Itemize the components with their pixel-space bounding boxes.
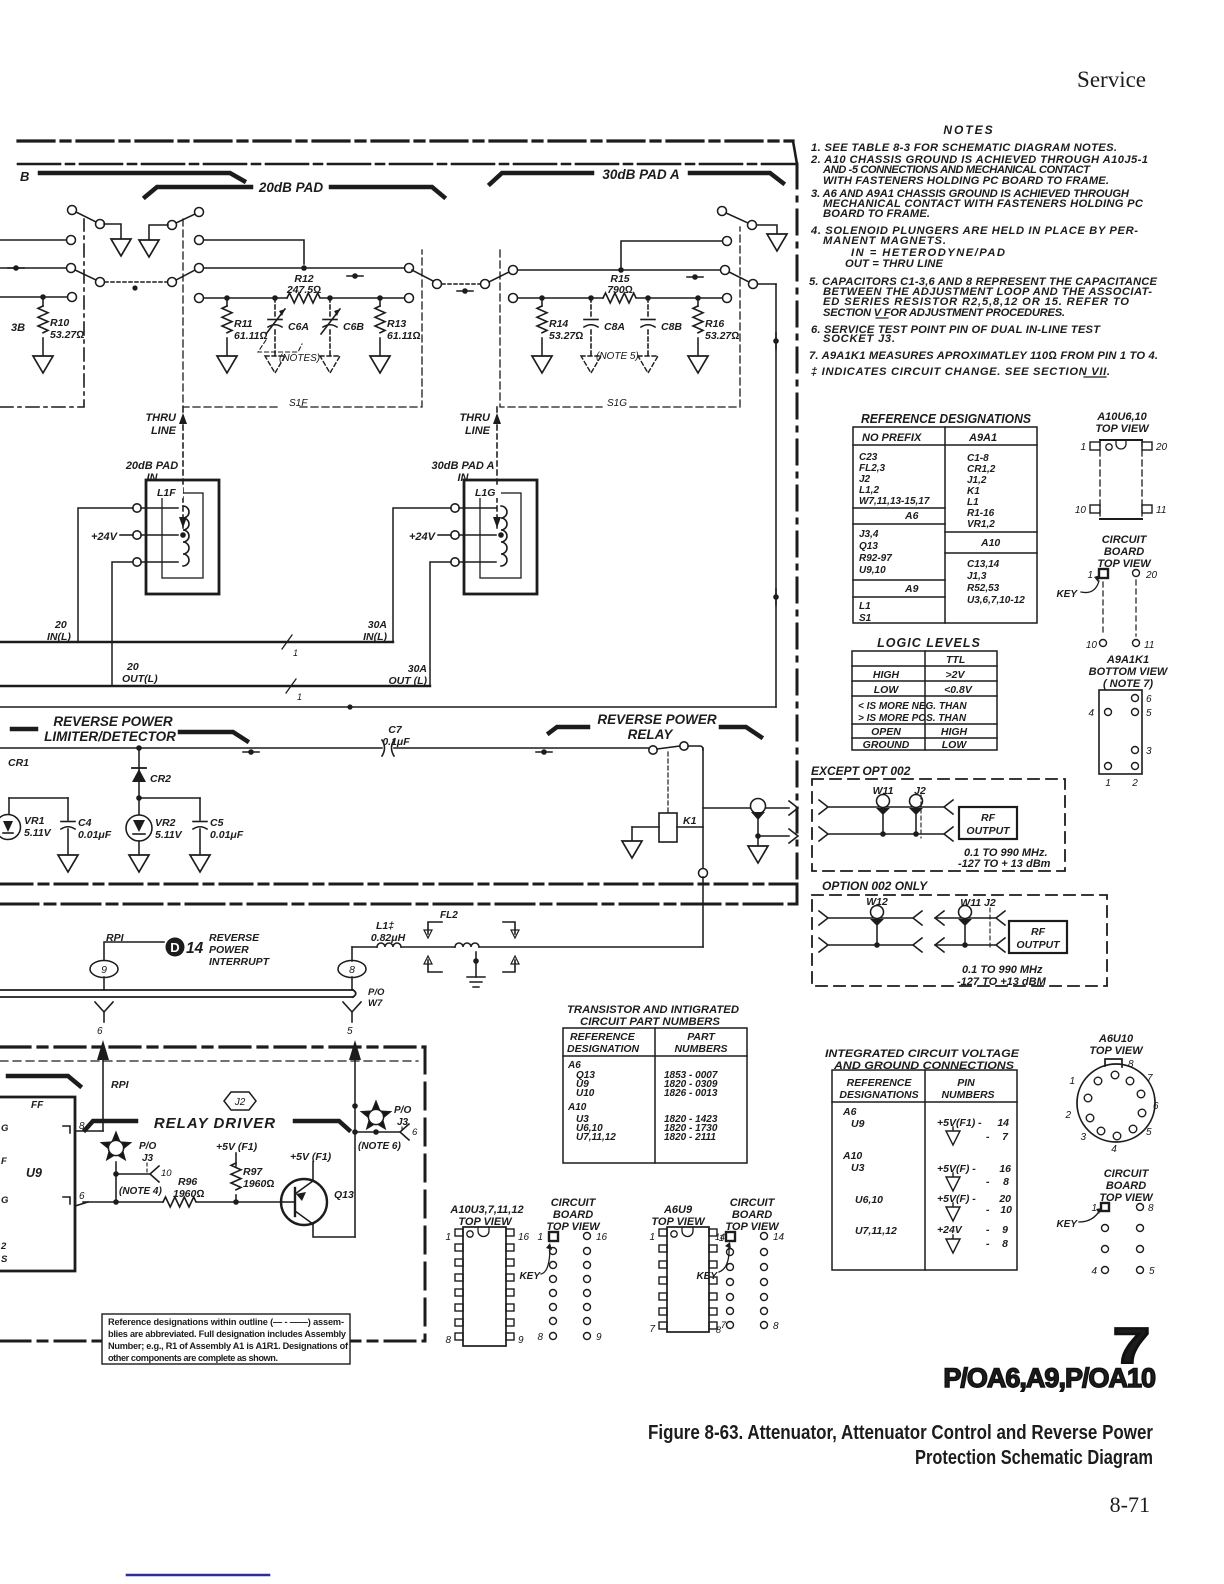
svg-text:8: 8 [349,964,355,976]
svg-text:2: 2 [1131,778,1138,789]
option wire 1 left [819,911,828,925]
svg-text:+24V: +24V [91,531,119,543]
main line IN y=642 [0,641,393,643]
svg-text:NO PREFIX: NO PREFIX [862,432,922,444]
bracket left limiter [12,727,36,732]
bracket 30dB PAD A left [490,173,592,184]
capacitor C7 [382,740,394,756]
ground top right [767,234,787,251]
pads 8 view [1101,1203,1109,1211]
svg-text:8: 8 [445,1335,451,1346]
svg-text:-: - [986,1204,990,1216]
30dB output switch arm [729,272,749,282]
ground under left switch [111,239,131,256]
30dB solenoid switch top right [718,207,727,216]
A10U6,10 package body [1100,439,1142,441]
svg-text:1: 1 [297,692,302,702]
svg-text:KEY: KEY [519,1271,541,1282]
svg-text:R97: R97 [243,1166,263,1178]
svg-text:-: - [986,1238,990,1250]
wire left row1 [0,239,66,241]
small ground symbols in pin column [946,1127,960,1253]
label L1F [155,486,183,498]
resistor R10 lead [40,294,46,300]
resistor R97 [231,1163,241,1190]
svg-text:C8B: C8B [661,321,682,333]
bracket 30dB PAD A right [690,173,783,183]
assembly border top dash-dot line 1 [18,139,793,142]
svg-text:VR1: VR1 [24,815,45,827]
resistor R14 [541,298,543,306]
svg-text:P/OA6,A9,P/OA10: P/OA6,A9,P/OA10 [943,1363,1155,1393]
svg-text:2: 2 [1064,1110,1071,1121]
DIP16 pins left [455,1229,514,1340]
svg-text:1: 1 [719,1233,724,1244]
30dB cell mid wire [509,266,518,275]
svg-text:A6: A6 [904,510,919,522]
svg-text:-: - [986,1176,990,1188]
svg-text:NOTES: NOTES [943,123,994,137]
S1F dashed switch outline [183,219,422,407]
connector circle 9 [90,961,118,978]
svg-text:PART: PART [687,1031,716,1043]
pads 14 view [726,1232,735,1241]
svg-text:+5V(F) -: +5V(F) - [937,1193,976,1205]
svg-text:REVERSE POWER: REVERSE POWER [53,714,173,729]
bracket 20dB PAD right [331,187,444,197]
option wire 1 right [935,911,944,925]
svg-text:(NOTE 5): (NOTE 5) [596,351,639,362]
resistor R11 [226,298,228,306]
svg-text:30A: 30A [368,619,387,631]
svg-text:EXCEPT OPT 002: EXCEPT OPT 002 [811,764,911,778]
svg-text:3B: 3B [11,322,25,334]
svg-text:LINE: LINE [465,425,491,437]
svg-text:(NOTE 4): (NOTE 4) [119,1186,162,1197]
svg-text:10: 10 [1075,505,1087,516]
svg-text:9: 9 [1002,1224,1008,1236]
svg-text:11: 11 [1156,505,1166,516]
wire left row3 [0,296,67,298]
svg-text:53.27Ω: 53.27Ω [705,330,739,342]
bracket right relay [721,727,761,737]
svg-text:INTEGRATED CIRCUIT VOLTAGE: INTEGRATED CIRCUIT VOLTAGE [825,1048,1020,1060]
svg-text:POWER: POWER [209,944,249,956]
relay driver top border dash-dot y=1047 [0,1045,425,1048]
dashed box EXCEPT OPT 002 [812,779,1065,871]
svg-text:1960Ω: 1960Ω [173,1188,204,1200]
svg-text:REFERENCE DESIGNATIONS: REFERENCE DESIGNATIONS [861,412,1032,426]
svg-text:KEY: KEY [1056,589,1078,600]
svg-text:5: 5 [347,1026,353,1037]
transistor table frame [563,1028,747,1163]
svg-text:-: - [986,1224,990,1236]
capacitor C8B [647,298,649,316]
marker dots on wire [248,749,254,755]
svg-text:J3: J3 [142,1153,154,1164]
svg-text:CR1: CR1 [8,757,29,769]
svg-text:4: 4 [1111,1144,1117,1155]
svg-text:1: 1 [537,1232,543,1243]
solenoid L1F outer box [146,480,219,594]
wire left row2 [0,267,66,269]
svg-text:TRANSISTOR AND INTIGRATED: TRANSISTOR AND INTIGRATED [567,1004,739,1016]
svg-text:6: 6 [97,1026,103,1037]
svg-text:U9: U9 [851,1118,865,1130]
svg-text:F: F [1,1156,7,1167]
svg-text:R11: R11 [234,318,253,330]
svg-text:KEY: KEY [696,1271,718,1282]
cable W11 loop option [959,906,972,919]
FL2 ground tap [473,958,479,964]
relay driver bottom border dash-dot y=1341 [0,1340,425,1343]
right assembly border vertical x=797 [796,164,799,884]
svg-text:0.1μF: 0.1μF [382,736,410,748]
svg-text:W7: W7 [368,998,383,1009]
relay driver right border vertical x=425 [424,1047,427,1341]
svg-text:A9A1: A9A1 [968,432,997,444]
svg-text:20: 20 [126,661,139,673]
svg-text:6: 6 [1146,694,1152,705]
svg-text:G: G [1,1123,9,1134]
svg-text:other components are complete: other components are complete as shown. [108,1353,278,1363]
svg-text:4: 4 [1088,708,1094,719]
svg-text:1: 1 [1087,570,1093,581]
svg-text:DESIGNATION: DESIGNATION [567,1043,640,1055]
svg-text:L1: L1 [967,497,979,508]
svg-text:8: 8 [1003,1176,1009,1188]
switch arm upper right pair [195,208,204,217]
svg-text:3: 3 [1080,1132,1086,1143]
svg-text:1: 1 [649,1232,655,1243]
fork 5 under bus [343,1002,361,1012]
svg-text:CIRCUIT PART NUMBERS: CIRCUIT PART NUMBERS [580,1016,721,1028]
svg-text:5: 5 [1146,1127,1152,1138]
zener VR2 [138,798,140,814]
contact circle on border [699,869,708,878]
svg-text:247.5Ω: 247.5Ω [286,284,321,296]
stub to ground right [149,225,168,239]
20dB cell mid wire [195,264,204,273]
svg-text:8: 8 [1128,1059,1134,1070]
svg-text:HIGH: HIGH [941,726,968,738]
ground under output [748,846,768,863]
svg-text:8: 8 [1002,1238,1008,1250]
svg-text:J2: J2 [234,1097,246,1108]
reference designation note box [102,1314,350,1364]
svg-text:16: 16 [999,1163,1011,1175]
svg-text:-: - [986,1131,990,1143]
bracket relay driver left [85,1121,136,1130]
svg-text:+5V(F) -: +5V(F) - [937,1163,976,1175]
L1G contacts [451,504,459,512]
20dB resistor row wire [195,294,204,303]
svg-text:Q13: Q13 [859,541,878,552]
svg-text:NUMBERS: NUMBERS [941,1089,994,1101]
svg-text:REFERENCE: REFERENCE [847,1077,913,1089]
svg-text:THRU: THRU [145,412,177,424]
svg-text:OUTPUT: OUTPUT [966,825,1011,837]
through switch between cells [412,270,433,281]
svg-text:A6U9: A6U9 [663,1204,693,1216]
svg-text:7: 7 [1002,1131,1009,1143]
contact circle row3 left [68,293,77,302]
svg-text:U7,11,12: U7,11,12 [576,1132,616,1143]
svg-text:Reference designations within: Reference designations within outline (—… [108,1317,344,1327]
svg-text:RELAY DRIVER: RELAY DRIVER [154,1115,276,1132]
svg-text:P/O: P/O [394,1105,411,1116]
svg-text:L1,2: L1,2 [859,485,879,496]
contact circle row2 left [67,264,76,273]
svg-text:GROUND: GROUND [863,739,910,751]
limiter section top line [0,706,776,708]
J2 dashed boundary option [989,908,991,950]
svg-text:LOW: LOW [874,684,900,696]
svg-text:5.11V: 5.11V [155,829,183,841]
svg-text:53.27Ω: 53.27Ω [50,329,84,341]
relay K1 [659,813,677,842]
wire FL2 to relay line [479,946,703,948]
capacitor C6B (variable) [329,298,331,316]
connector star P/O J3 left [102,1133,131,1160]
svg-text:61.11Ω: 61.11Ω [234,330,268,342]
wire 2 except [819,827,828,841]
svg-text:D: D [170,940,179,955]
svg-text:TTL: TTL [946,654,965,666]
relay switch contacts [649,746,657,754]
IC voltage table frame [832,1070,1017,1270]
svg-text:9: 9 [518,1335,524,1346]
svg-text:BOARD: BOARD [553,1209,593,1221]
bracket relay driver right [295,1121,349,1130]
RF OUTPUT box 2 [1009,921,1067,953]
coil L1G [501,506,507,566]
svg-text:L1‡: L1‡ [376,920,394,932]
svg-text:20: 20 [54,619,67,631]
marker dot 30dB mid [692,274,698,280]
svg-text:R52,53: R52,53 [967,583,1000,594]
svg-text:OUTPUT: OUTPUT [1016,939,1061,951]
S1G dashed switch outline [500,227,740,407]
solenoid L1G outer box [464,480,537,594]
resistor R13 [379,298,381,306]
svg-text:11: 11 [1144,640,1154,651]
svg-text:THRU: THRU [459,412,491,424]
svg-text:LOW: LOW [942,739,968,751]
underline section VII [1084,376,1106,378]
svg-text:J1,3: J1,3 [967,571,987,582]
svg-text:6: 6 [412,1127,418,1138]
bracket 20dB PAD left [145,187,251,197]
L1F wiring to main lines [78,508,133,642]
svg-text:A6: A6 [842,1106,857,1118]
svg-text:CIRCUIT: CIRCUIT [1104,1168,1150,1180]
resistor R10 [38,306,48,333]
svg-text:OPEN: OPEN [871,726,901,738]
svg-text:J2: J2 [859,474,871,485]
svg-text:R14: R14 [549,318,568,330]
junction dots resistor row [224,295,230,301]
pads 16 view [549,1232,558,1241]
solenoid L1F inner box [162,493,203,578]
dashed pad columns [1102,582,1104,636]
flip flop U9 box [0,1097,75,1271]
svg-text:10: 10 [161,1168,172,1179]
svg-text:CR2: CR2 [150,773,171,785]
svg-text:VR1,2: VR1,2 [967,519,995,530]
svg-text:R96: R96 [178,1176,197,1188]
svg-text:+5V (F1): +5V (F1) [290,1151,332,1163]
20dB cell bypass wire [195,236,204,245]
svg-text:U3: U3 [851,1162,865,1174]
svg-text:W12: W12 [866,896,888,908]
svg-text:790Ω: 790Ω [607,284,633,296]
output branch lower [755,833,761,839]
svg-text:TOP VIEW: TOP VIEW [1089,1045,1144,1057]
svg-text:CIRCUIT: CIRCUIT [551,1197,597,1209]
svg-text:C1-8: C1-8 [967,453,989,464]
svg-text:-127 TO +13 dBM: -127 TO +13 dBM [957,976,1047,988]
A6U10 can body [1077,1064,1155,1142]
svg-text:R16: R16 [705,318,724,330]
svg-text:7: 7 [649,1324,655,1335]
svg-text:16: 16 [518,1232,530,1243]
svg-text:IN(L): IN(L) [47,631,71,643]
svg-text:6: 6 [1153,1101,1159,1112]
svg-text:<0.8V: <0.8V [944,684,973,696]
connector circle 8 [338,961,366,978]
junction marker left row2 [13,265,19,271]
slash marker on IN line [282,635,292,649]
svg-text:C7: C7 [388,724,403,736]
svg-text:C8A: C8A [604,321,625,333]
heavy bracket top left [8,1076,80,1086]
svg-text:U10: U10 [576,1088,595,1099]
D14 reverse power interrupt symbol [166,938,185,957]
svg-text:S1F: S1F [289,398,308,409]
svg-text:A10: A10 [842,1150,862,1162]
svg-text:REVERSE POWER: REVERSE POWER [597,712,717,727]
svg-text:‡ INDICATES CIRCUIT CHANGE. SE: ‡ INDICATES CIRCUIT CHANGE. SEE SECTION … [811,366,1110,378]
border corner joining y884 y904 [796,884,799,904]
svg-text:< IS MORE NEG. THAN: < IS MORE NEG. THAN [858,701,967,712]
no prefix list [859,452,930,507]
relay coil K1 actuation dashed [667,752,669,812]
svg-text:8: 8 [1148,1203,1154,1214]
svg-text:5.11V: 5.11V [24,827,52,839]
svg-text:FL2,3: FL2,3 [859,463,886,474]
svg-text:REFERENCE: REFERENCE [570,1031,636,1043]
capacitor C8A [590,298,592,316]
svg-text:(NOTES): (NOTES) [279,353,320,364]
svg-text:CIRCUIT: CIRCUIT [730,1197,776,1209]
switch arm row2 to pivot [75,270,96,280]
svg-text:J2: J2 [914,785,926,797]
svg-text:R92-97: R92-97 [859,553,892,564]
svg-text:W11: W11 [873,785,894,797]
svg-text:C5: C5 [210,817,224,829]
svg-text:TOP VIEW: TOP VIEW [1095,423,1150,435]
svg-text:1820 - 2111: 1820 - 2111 [664,1132,716,1143]
svg-text:10: 10 [1086,640,1098,651]
svg-text:30dB PAD A: 30dB PAD A [432,460,495,472]
svg-text:-127 TO + 13 dBm: -127 TO + 13 dBm [958,858,1051,870]
thru line dashed link L1F [182,407,184,528]
diode CR2 [136,745,142,751]
svg-text:J3: J3 [397,1117,409,1128]
ground under right switch [139,240,159,257]
wire 1 except [819,800,828,814]
svg-text:1. SEE TABLE 8-3 FOR SCHEMATIC: 1. SEE TABLE 8-3 FOR SCHEMATIC DIAGRAM N… [811,142,1117,154]
svg-text:WITH FASTENERS HOLDING PC BOAR: WITH FASTENERS HOLDING PC BOARD TO FRAME… [823,175,1109,187]
svg-text:BOARD: BOARD [732,1209,772,1221]
svg-text:14: 14 [186,940,204,957]
transistor Q13 [281,1179,327,1225]
wire down from relay switch [702,748,704,873]
J2 dashed boundary [920,795,922,838]
svg-text:20: 20 [1155,442,1168,453]
wire L1 to FL2 [401,946,455,948]
bottom blue rule [127,1574,269,1577]
left dash-dot box around input section [0,219,84,407]
svg-text:LOGIC LEVELS: LOGIC LEVELS [877,636,981,650]
svg-text:L1G: L1G [475,487,495,499]
svg-text:OUT(L): OUT(L) [122,673,158,685]
30dB resistor row wire [509,294,518,303]
Q13 collector to +5V [312,1162,314,1181]
Q13 emitter loop [313,1224,355,1237]
relay driver inner dashed line y=1061 [0,1060,418,1062]
svg-text:U9: U9 [26,1166,42,1180]
svg-text:0.1 TO 990 MHz: 0.1 TO 990 MHz [962,964,1043,976]
svg-text:20dB PAD: 20dB PAD [258,180,324,195]
svg-text:R10: R10 [50,317,69,329]
svg-text:7: 7 [1147,1073,1153,1084]
connector star P/O J3 right [362,1102,391,1129]
svg-text:G: G [1,1195,9,1206]
svg-text:J1,2: J1,2 [967,475,987,486]
svg-text:FL2: FL2 [440,910,458,921]
svg-text:K1: K1 [683,815,697,827]
U9 pin 8 [63,1126,70,1133]
bracket right limiter [180,732,247,741]
svg-text:8-71: 8-71 [1110,1492,1150,1517]
inductor inside FL2 [455,943,479,947]
through switch pivots left section [96,278,105,287]
contact circle row1 left [67,236,76,245]
svg-text:20: 20 [1145,570,1158,581]
svg-text:P/O: P/O [368,987,385,998]
junction dots 30dB row [539,295,545,301]
svg-text:+5V (F1): +5V (F1) [216,1141,258,1153]
svg-text:LIMITER/DETECTOR: LIMITER/DETECTOR [44,729,176,744]
svg-text:>2V: >2V [946,669,966,681]
main detect wire y=748 [0,747,382,749]
can pins [1084,1071,1146,1140]
pad 20 [1133,570,1140,577]
svg-text:Service: Service [1077,67,1146,92]
A9A1 column list [967,453,996,530]
svg-text:14: 14 [773,1232,785,1243]
svg-text:1: 1 [1091,1203,1097,1214]
bracket for section B [40,173,244,181]
package pins [1090,442,1100,450]
inductor L1 [377,943,401,947]
svg-text:U9,10: U9,10 [859,565,886,576]
svg-text:Number; e.g., R1 of Assembly A: Number; e.g., R1 of Assembly A1 is A1R1.… [108,1341,349,1351]
resistor R16 [697,298,699,306]
solenoid L1G inner box [480,493,521,578]
